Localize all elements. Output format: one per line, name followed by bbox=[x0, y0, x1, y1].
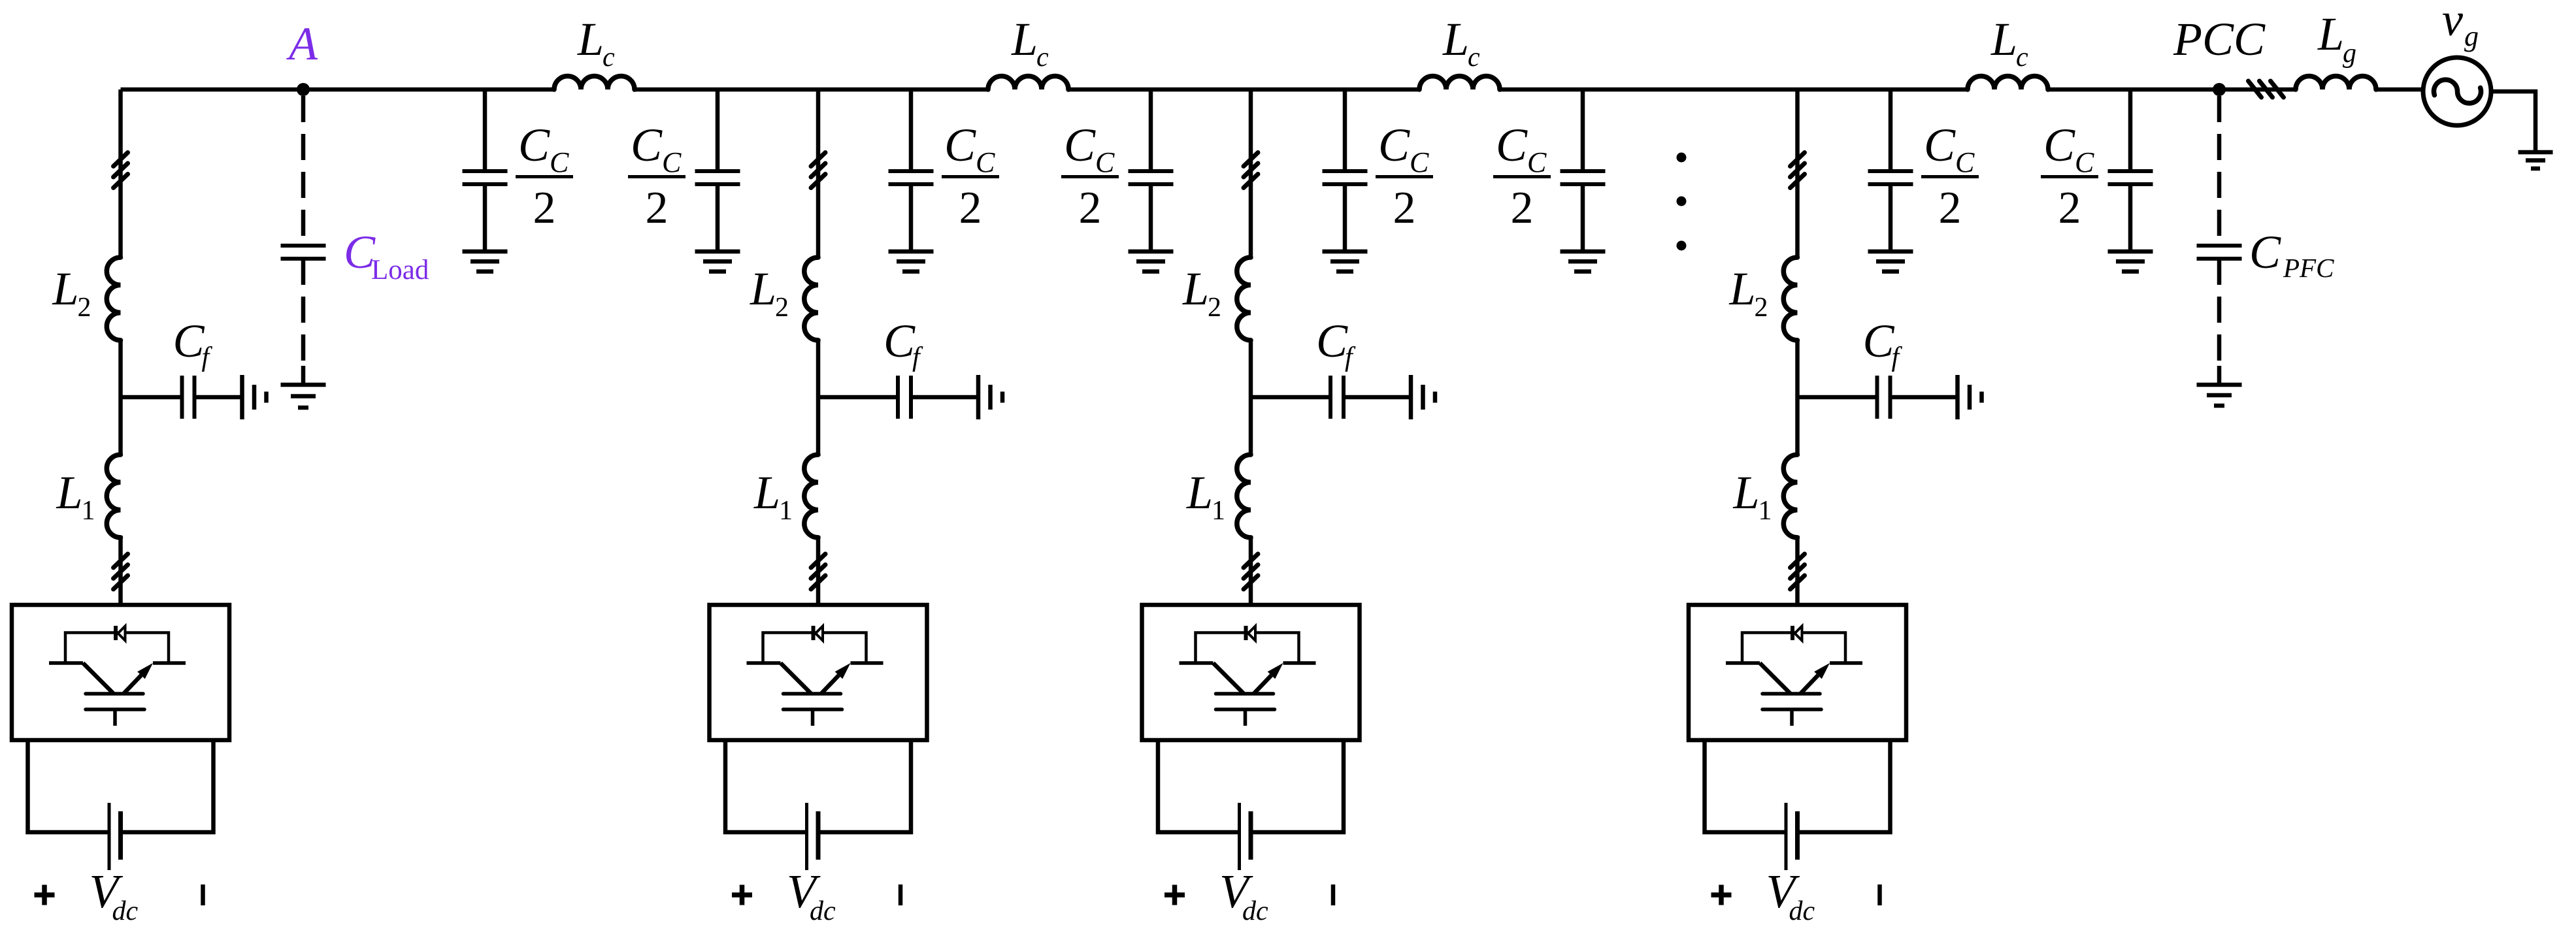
label Lc4 bbox=[1990, 13, 2028, 73]
wire Cf branch module 1 bbox=[121, 395, 242, 400]
ground CC/2 #1 bbox=[463, 251, 508, 272]
wire diode loop module 2 bbox=[763, 633, 867, 664]
inductor L2 module 3 bbox=[1237, 257, 1251, 340]
transistor Q2 (IGBT) bbox=[747, 663, 883, 726]
label Cf module 2 bbox=[883, 315, 923, 372]
label C_PFC bbox=[2249, 226, 2334, 283]
svg-text:L: L bbox=[753, 466, 780, 519]
svg-text:L: L bbox=[1011, 13, 1038, 65]
node PCC bbox=[2213, 83, 2226, 96]
label L2 module 2 bbox=[750, 263, 789, 323]
capacitor Cf module 4 bbox=[1877, 376, 1891, 419]
wire CC/2 branch 8 bottom bbox=[2128, 184, 2133, 251]
ground CC/2 #6 bbox=[1560, 251, 1606, 272]
wire dashed C_PFC upper bbox=[2217, 96, 2222, 244]
svg-text:2: 2 bbox=[78, 293, 91, 323]
svg-text:2: 2 bbox=[1939, 183, 1962, 233]
svg-text:C: C bbox=[1410, 146, 1429, 178]
wire main bus segment 4 bbox=[1500, 88, 1968, 92]
ground (sideways) Cf module 2 bbox=[978, 375, 1002, 419]
ground C_PFC bbox=[2197, 385, 2242, 406]
wire DC link left module 3 bbox=[1158, 740, 1240, 832]
label + polarity module 4 bbox=[1711, 885, 1732, 905]
wire module 1 between L2 and L1 bbox=[118, 339, 123, 456]
svg-text:dc: dc bbox=[112, 896, 139, 926]
label vg bbox=[2442, 0, 2479, 52]
ground CC/2 #5 bbox=[1323, 251, 1368, 272]
label Lg bbox=[2317, 8, 2356, 69]
label − polarity module 4 bbox=[1877, 884, 1882, 905]
wire DC link right module 1 bbox=[121, 740, 214, 832]
label CC/2 #1 bbox=[516, 119, 573, 233]
inverter module 3 box bbox=[1142, 605, 1360, 740]
svg-text:C: C bbox=[662, 146, 682, 178]
ground (sideways) Cf module 3 bbox=[1411, 375, 1435, 419]
wire DC link right module 3 bbox=[1251, 740, 1344, 832]
svg-text:C: C bbox=[1316, 315, 1348, 367]
svg-text:L: L bbox=[56, 466, 83, 519]
current-break slashes module 1 top bbox=[114, 153, 128, 188]
svg-text:g: g bbox=[2464, 20, 2479, 52]
svg-text:L: L bbox=[1733, 466, 1760, 519]
svg-text:c: c bbox=[2016, 42, 2028, 73]
wire module 1 to inverter box bbox=[118, 536, 123, 605]
svg-text:v: v bbox=[2442, 0, 2463, 46]
wire Cf branch module 4 bbox=[1798, 395, 1958, 400]
svg-text:C: C bbox=[1496, 119, 1528, 171]
wire module 1 branch from bus bbox=[118, 89, 123, 259]
label + polarity module 1 bbox=[35, 885, 55, 905]
wire CC/2 branch 1 top bbox=[483, 89, 487, 171]
node A bbox=[297, 83, 310, 96]
svg-text:C: C bbox=[1095, 146, 1115, 178]
ground (sideways) Cf module 4 bbox=[1958, 375, 1982, 419]
svg-text:dc: dc bbox=[1242, 896, 1268, 926]
svg-text:L: L bbox=[52, 263, 79, 315]
svg-text:2: 2 bbox=[1755, 293, 1768, 323]
svg-text:C: C bbox=[2249, 226, 2281, 278]
wire diode loop module 3 bbox=[1196, 633, 1299, 664]
inductor Lc3 bbox=[1419, 76, 1500, 90]
label Cf module 4 bbox=[1863, 315, 1903, 372]
label Cf module 1 bbox=[173, 315, 213, 372]
ground CC/2 #4 bbox=[1129, 251, 1174, 272]
label CC/2 #3 bbox=[942, 119, 999, 233]
battery Vdc module 3 bbox=[1240, 803, 1251, 870]
transistor Q4 (IGBT) bbox=[1726, 663, 1862, 726]
wire Cf branch module 3 bbox=[1251, 395, 1411, 400]
wire CC/2 branch 5 top bbox=[1343, 89, 1347, 171]
wire CC/2 branch 4 top bbox=[1149, 89, 1153, 171]
svg-text:1: 1 bbox=[1212, 496, 1225, 526]
inductor Lc1 bbox=[554, 76, 635, 90]
inductor L1 module 3 bbox=[1237, 455, 1251, 538]
current-break slashes module 3 bottom bbox=[1244, 554, 1258, 589]
svg-text:C: C bbox=[1378, 119, 1410, 171]
label L2 module 4 bbox=[1729, 263, 1768, 323]
wire CC/2 branch 6 bottom bbox=[1581, 184, 1585, 251]
wire module 4 between L2 and L1 bbox=[1795, 339, 1800, 456]
ellipsis (more modules) bbox=[1677, 153, 1687, 251]
wire DC link left module 2 bbox=[725, 740, 807, 832]
svg-text:dc: dc bbox=[1789, 896, 1815, 926]
svg-text:C: C bbox=[2043, 119, 2075, 171]
capacitor Cf module 2 bbox=[898, 376, 911, 419]
wire module 2 between L2 and L1 bbox=[816, 339, 821, 456]
wire module 3 to inverter box bbox=[1249, 536, 1253, 605]
wire CC/2 branch 2 bottom bbox=[716, 184, 720, 251]
svg-text:C: C bbox=[1863, 315, 1895, 367]
svg-text:L: L bbox=[1186, 466, 1213, 519]
inductor Lc4 bbox=[1968, 76, 2048, 90]
wire module 2 branch from bus bbox=[816, 89, 821, 259]
inverter module 4 box bbox=[1689, 605, 1906, 740]
svg-text:PFC: PFC bbox=[2283, 253, 2334, 283]
label Vdc module 2 bbox=[787, 865, 836, 926]
wire dashed C_PFC lower bbox=[2217, 259, 2222, 370]
inductor L1 module 2 bbox=[804, 455, 818, 538]
label L2 module 1 bbox=[52, 263, 91, 323]
label CC/2 #6 bbox=[1493, 119, 1551, 233]
svg-text:C: C bbox=[1064, 119, 1096, 171]
wire module 3 between L2 and L1 bbox=[1249, 339, 1253, 456]
wire main bus segment 2 bbox=[635, 88, 988, 92]
label + polarity module 3 bbox=[1164, 885, 1185, 905]
svg-text:PCC: PCC bbox=[2173, 13, 2266, 65]
capacitor CC/2 #6 bbox=[1560, 171, 1606, 184]
ground CC/2 #7 bbox=[1868, 251, 1913, 272]
svg-text:c: c bbox=[1468, 42, 1480, 73]
current-break slashes module 2 bottom bbox=[811, 554, 825, 589]
wire CC/2 branch 3 bottom bbox=[909, 184, 914, 251]
battery Vdc module 2 bbox=[807, 803, 819, 870]
current-break slashes module 4 top bbox=[1791, 153, 1805, 188]
wire CC/2 branch 8 top bbox=[2128, 89, 2133, 171]
wire CC/2 branch 2 top bbox=[716, 89, 720, 171]
svg-text:C: C bbox=[2075, 146, 2094, 178]
inverter module 1 box bbox=[12, 605, 229, 740]
svg-text:dc: dc bbox=[810, 896, 836, 926]
battery Vdc module 1 bbox=[109, 803, 121, 870]
svg-text:Load: Load bbox=[371, 255, 429, 285]
label − polarity module 2 bbox=[899, 884, 903, 905]
wire main bus segment 3 bbox=[1068, 88, 1419, 92]
label CC/2 #4 bbox=[1061, 119, 1119, 233]
svg-text:2: 2 bbox=[1079, 183, 1102, 233]
AC source vg bbox=[2423, 57, 2491, 125]
wire main bus segment 1 bbox=[121, 88, 555, 92]
inductor L2 module 4 bbox=[1783, 257, 1797, 340]
current-break slashes module 1 bottom bbox=[114, 554, 128, 589]
svg-text:C: C bbox=[944, 119, 976, 171]
capacitor CC/2 #5 bbox=[1323, 171, 1368, 184]
label L1 module 1 bbox=[56, 466, 95, 526]
svg-text:2: 2 bbox=[775, 293, 789, 323]
label Lc3 bbox=[1442, 13, 1480, 73]
wire module 4 branch from bus bbox=[1795, 89, 1800, 259]
label C_Load bbox=[344, 226, 429, 285]
wire CC/2 branch 1 bottom bbox=[483, 184, 487, 251]
inductor L1 module 4 bbox=[1783, 455, 1797, 538]
svg-text:C: C bbox=[1527, 146, 1547, 178]
svg-text:2: 2 bbox=[1511, 183, 1534, 233]
wire module 2 to inverter box bbox=[816, 536, 821, 605]
label CC/2 #7 bbox=[1921, 119, 1979, 233]
ground C_Load bbox=[281, 385, 326, 408]
label + polarity module 2 bbox=[732, 885, 752, 905]
wire CC/2 branch 3 top bbox=[909, 89, 914, 171]
wire DC link left module 4 bbox=[1705, 740, 1787, 832]
label CC/2 #8 bbox=[2041, 119, 2098, 233]
label Cf module 3 bbox=[1316, 315, 1356, 372]
wire DC link right module 4 bbox=[1798, 740, 1891, 832]
wire CC/2 branch 6 top bbox=[1581, 89, 1585, 171]
battery Vdc module 4 bbox=[1786, 803, 1798, 870]
svg-text:C: C bbox=[1955, 146, 1975, 178]
ground CC/2 #3 bbox=[889, 251, 934, 272]
wire dashed C_Load upper bbox=[301, 96, 306, 244]
svg-text:C: C bbox=[976, 146, 995, 178]
label − polarity module 1 bbox=[201, 884, 205, 905]
ground CC/2 #8 bbox=[2108, 251, 2153, 272]
wire diode loop module 1 bbox=[65, 633, 169, 664]
label Lc1 bbox=[577, 13, 615, 73]
inductor Lc2 bbox=[988, 76, 1068, 90]
label CC/2 #2 bbox=[628, 119, 685, 233]
wire CC/2 branch 5 bottom bbox=[1343, 184, 1347, 251]
label L1 module 2 bbox=[753, 466, 793, 526]
wire Cf branch module 2 bbox=[818, 395, 978, 400]
ground vg bbox=[2518, 152, 2553, 169]
svg-text:1: 1 bbox=[779, 496, 793, 526]
svg-text:2: 2 bbox=[1208, 293, 1221, 323]
diode D1 bbox=[116, 626, 125, 641]
capacitor Cf module 1 bbox=[182, 376, 195, 419]
capacitor CC/2 #7 bbox=[1868, 171, 1913, 184]
inductor L2 module 2 bbox=[804, 257, 818, 340]
label L1 module 3 bbox=[1186, 466, 1225, 526]
inductor L2 module 1 bbox=[107, 257, 120, 340]
inductor Lg bbox=[2296, 76, 2376, 90]
wire vg to ground bbox=[2491, 91, 2535, 151]
wire C_Load ground stub bbox=[301, 366, 306, 385]
svg-text:C: C bbox=[550, 146, 569, 178]
label CC/2 #5 bbox=[1376, 119, 1433, 233]
svg-text:C: C bbox=[173, 315, 205, 367]
wire CC/2 branch 4 bottom bbox=[1149, 184, 1153, 251]
svg-text:L: L bbox=[1182, 263, 1209, 315]
svg-text:C: C bbox=[1924, 119, 1956, 171]
current-break slashes module 2 top bbox=[811, 153, 825, 188]
svg-text:2: 2 bbox=[533, 183, 556, 233]
wire diode loop module 4 bbox=[1742, 633, 1845, 664]
wire DC link right module 2 bbox=[818, 740, 911, 832]
diode D2 bbox=[814, 626, 823, 641]
label L1 module 4 bbox=[1733, 466, 1772, 526]
svg-text:c: c bbox=[603, 42, 615, 73]
capacitor CC/2 #2 bbox=[695, 171, 740, 184]
ground CC/2 #2 bbox=[695, 251, 740, 272]
ground (sideways) Cf module 1 bbox=[242, 375, 267, 419]
label Lc2 bbox=[1011, 13, 1049, 73]
svg-text:2: 2 bbox=[646, 183, 669, 233]
wire Lg to vg bbox=[2376, 88, 2423, 92]
svg-text:L: L bbox=[750, 263, 776, 315]
svg-text:L: L bbox=[1442, 13, 1469, 65]
svg-text:2: 2 bbox=[1393, 183, 1416, 233]
diode D3 bbox=[1246, 626, 1256, 641]
svg-text:L: L bbox=[1729, 263, 1756, 315]
wire module 3 branch from bus bbox=[1249, 89, 1253, 259]
capacitor C_PFC bbox=[2197, 246, 2242, 259]
svg-text:c: c bbox=[1036, 42, 1049, 73]
capacitor CC/2 #4 bbox=[1129, 171, 1174, 184]
svg-text:L: L bbox=[577, 13, 604, 65]
svg-text:1: 1 bbox=[1759, 496, 1772, 526]
wire CC/2 branch 7 bottom bbox=[1889, 184, 1893, 251]
label Vdc module 3 bbox=[1219, 865, 1268, 926]
svg-text:g: g bbox=[2343, 39, 2356, 69]
capacitor C_Load bbox=[281, 246, 326, 259]
capacitor CC/2 #1 bbox=[463, 171, 508, 184]
capacitor CC/2 #3 bbox=[889, 171, 934, 184]
label Vdc module 4 bbox=[1766, 865, 1815, 926]
transistor Q3 (IGBT) bbox=[1180, 663, 1316, 726]
wire dashed C_Load lower bbox=[301, 259, 306, 370]
svg-text:C: C bbox=[518, 119, 550, 171]
wire CC/2 branch 7 top bbox=[1889, 89, 1893, 171]
wire module 4 to inverter box bbox=[1795, 536, 1800, 605]
inverter module 2 box bbox=[710, 605, 927, 740]
svg-text:L: L bbox=[1990, 13, 2017, 65]
svg-text:C: C bbox=[883, 315, 916, 367]
transistor Q1 (IGBT) bbox=[49, 663, 186, 726]
wire PCC to Lg bbox=[2219, 88, 2296, 92]
label − polarity module 3 bbox=[1331, 884, 1336, 905]
wire main bus segment 5 (to PCC) bbox=[2048, 88, 2219, 92]
capacitor Cf module 3 bbox=[1330, 376, 1344, 419]
capacitor CC/2 #8 bbox=[2108, 171, 2153, 184]
svg-text:C: C bbox=[631, 119, 663, 171]
wire DC link left module 1 bbox=[28, 740, 110, 832]
current-break slashes module 4 bottom bbox=[1791, 554, 1805, 589]
inductor L1 module 1 bbox=[107, 455, 120, 538]
svg-text:A: A bbox=[286, 18, 318, 70]
label Vdc module 1 bbox=[90, 865, 139, 926]
svg-text:1: 1 bbox=[82, 496, 95, 526]
svg-text:L: L bbox=[2317, 8, 2344, 60]
current-break slashes at PCC bbox=[2249, 81, 2284, 97]
wire C_PFC ground stub bbox=[2217, 366, 2222, 385]
label L2 module 3 bbox=[1182, 263, 1221, 323]
svg-text:2: 2 bbox=[2058, 183, 2081, 233]
diode D4 bbox=[1792, 626, 1802, 641]
current-break slashes module 3 top bbox=[1244, 153, 1258, 188]
svg-text:2: 2 bbox=[959, 183, 982, 233]
